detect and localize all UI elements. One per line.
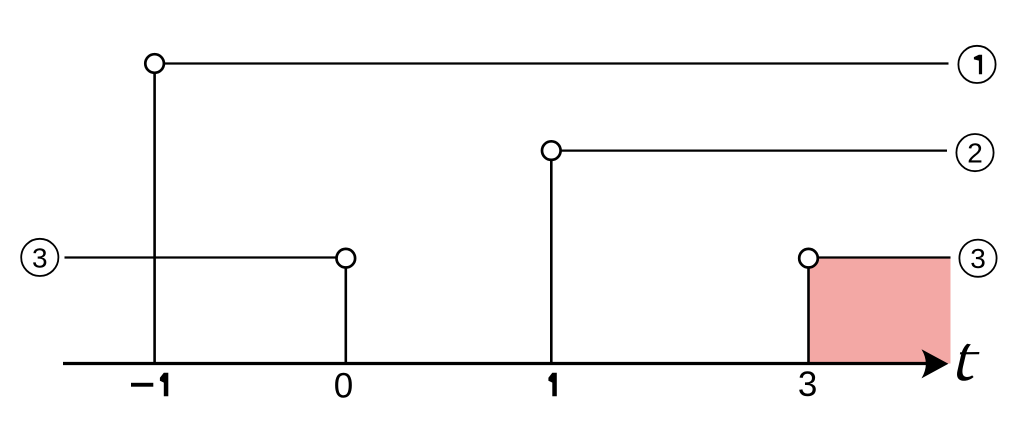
open circle at t=0 [337, 249, 356, 268]
open circle at t=-1 [145, 54, 164, 73]
wire: horizontal segment of signal 3 (left) [65, 256, 337, 258]
t axis [63, 362, 936, 365]
circled label 3 (left) [21, 239, 58, 276]
wire: horizontal segment of signal 1 at top [165, 62, 949, 64]
axis label t (stem and hook) [957, 344, 974, 381]
svg-text:3: 3 [798, 365, 817, 404]
wire: top edge of shaded region (signal 3 right) [819, 256, 951, 258]
wire: vertical stem at t=0 [344, 268, 347, 364]
shaded region from t=3 (pink rectangle) [809, 258, 951, 364]
wire: horizontal segment of signal 2 [562, 150, 948, 152]
wire: vertical stem at t=3 [807, 268, 810, 364]
axis arrowhead [922, 349, 949, 378]
svg-text:3: 3 [32, 242, 48, 273]
tick label 1 [548, 373, 556, 397]
circled label 2 (right) [956, 134, 993, 171]
tick label -1 (minus sign) [131, 383, 153, 387]
axis label t (crossbar) [960, 352, 980, 354]
wire: vertical stem at t=-1 [153, 73, 156, 364]
open circle at t=1 [542, 141, 561, 160]
tick label -1 (digit 1) [160, 373, 168, 397]
wire: vertical stem at t=1 [550, 160, 553, 364]
circled label 1 (right) [958, 46, 995, 83]
circled label 3 (right) [959, 240, 996, 277]
svg-text:2: 2 [967, 138, 983, 169]
svg-text:0: 0 [334, 366, 353, 405]
svg-text:3: 3 [970, 243, 986, 274]
open circle at t=3 [799, 249, 818, 268]
